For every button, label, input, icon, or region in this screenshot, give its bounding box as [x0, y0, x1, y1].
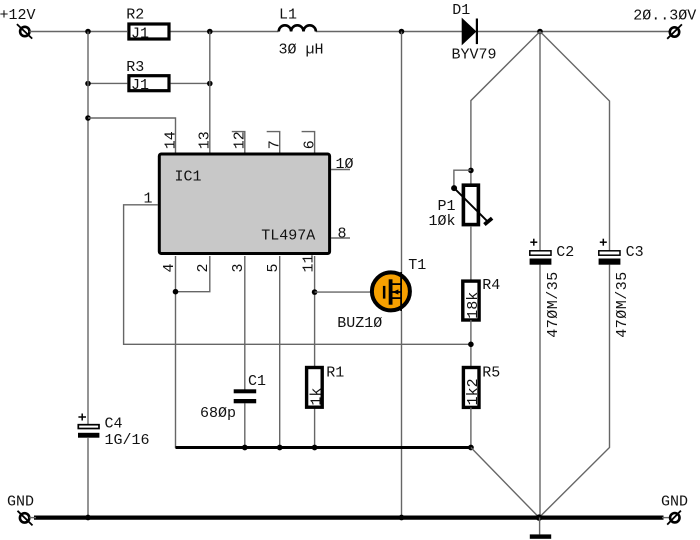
- svg-text:47ØM/35: 47ØM/35: [614, 271, 631, 338]
- svg-text:14: 14: [162, 131, 179, 149]
- svg-text:8: 8: [338, 226, 347, 243]
- node junction bus C1: [242, 445, 248, 451]
- svg-text:C2: C2: [556, 244, 574, 261]
- svg-text:6: 6: [301, 140, 318, 149]
- wire bottom bus: [176, 446, 471, 449]
- svg-text:R2: R2: [126, 6, 144, 23]
- wire y118 to pin14: [88, 118, 176, 153]
- node junction gnd x539: [536, 514, 542, 520]
- svg-text:R3: R3: [126, 59, 144, 76]
- wire P1 to R4: [470, 226, 472, 281]
- mosfet drain lead: [393, 283, 402, 285]
- ground symbol: [530, 518, 551, 539]
- svg-text:12: 12: [232, 131, 249, 149]
- svg-text:1Øk: 1Øk: [429, 213, 456, 230]
- terminal +12V: [17, 24, 32, 38]
- node junction gnd x401: [399, 515, 405, 521]
- wire gate: [315, 291, 384, 293]
- node junction pins 2-4: [173, 289, 179, 295]
- wire source to gnd: [401, 311, 403, 518]
- resistor R5: [463, 365, 500, 408]
- node junction x88 y118: [85, 115, 91, 121]
- node junction x88 R3: [85, 81, 91, 87]
- wire top junction to P1 diagonal: [471, 32, 540, 185]
- svg-text:2Ø..3ØV: 2Ø..3ØV: [633, 7, 696, 24]
- capacitor C4: [78, 414, 150, 450]
- wire pin 3 to C1: [244, 256, 246, 390]
- wire gnd bus: [34, 515, 664, 519]
- svg-text:7: 7: [267, 140, 284, 149]
- svg-text:C4: C4: [105, 416, 123, 433]
- capacitor C2: [530, 32, 575, 518]
- wire C2 bottom: [539, 265, 541, 518]
- svg-text:R1: R1: [326, 365, 344, 382]
- node junction top x401 (T1 drain): [399, 29, 405, 35]
- wire R3 left: [88, 82, 128, 84]
- wire pin13 vertical x210: [209, 32, 211, 154]
- node junction gnd x88: [85, 515, 91, 521]
- mosfet gate bar: [383, 286, 386, 299]
- mosfet source lead: [393, 297, 402, 299]
- inductor L1: [279, 7, 324, 59]
- node junction bus R5: [468, 445, 474, 451]
- wire C1 to bus: [244, 403, 246, 447]
- wire P1 wiper link: [454, 170, 471, 188]
- wire D1 to output terminal: [478, 31, 670, 33]
- svg-text:L1: L1: [279, 7, 297, 24]
- svg-text:D1: D1: [452, 2, 470, 19]
- node junction bus R1: [312, 445, 318, 451]
- node junction P1 top: [468, 168, 474, 174]
- svg-text:47ØM/35: 47ØM/35: [545, 271, 562, 338]
- capacitor C3: [539, 32, 644, 518]
- wire pin 2 to pin 4: [176, 256, 210, 292]
- svg-text:IC1: IC1: [175, 169, 202, 186]
- wire drain from top rail: [401, 32, 403, 274]
- terminal GND left: [18, 511, 33, 526]
- svg-text:13: 13: [197, 131, 214, 149]
- wire C3 bottom: [539, 265, 609, 518]
- node junction P1 wiper: [451, 185, 457, 191]
- svg-text:1Ø: 1Ø: [336, 156, 354, 173]
- wire C4 to gnd bus: [87, 438, 89, 518]
- svg-text:J1: J1: [131, 25, 149, 42]
- mosfet internal vertical lead: [400, 272, 402, 311]
- resistor R2: [126, 6, 169, 42]
- wire R3 right: [171, 82, 210, 84]
- diode D1 BYV79: [452, 2, 497, 64]
- svg-text:1k2: 1k2: [465, 378, 482, 405]
- node junction gate: [312, 289, 318, 295]
- wire left rail x88 vertical: [87, 32, 89, 425]
- wire pin 5 to bus: [279, 256, 281, 448]
- svg-text:C1: C1: [248, 373, 266, 390]
- svg-text:GND: GND: [7, 494, 34, 511]
- capacitor C1: [200, 373, 266, 422]
- wire C3 diagonal+top: [540, 32, 610, 251]
- svg-text:J1: J1: [131, 77, 149, 94]
- node junction top x210: [207, 29, 213, 35]
- svg-text:18k: 18k: [465, 292, 482, 319]
- potentiometer P1: [429, 185, 493, 230]
- pin 8 stub: [331, 237, 350, 239]
- mosfet body lead with arrow: [393, 291, 402, 293]
- IC IC1 TL497A: [159, 154, 329, 254]
- resistor R3: [126, 59, 169, 94]
- svg-text:R5: R5: [482, 365, 500, 382]
- resistor R1: [307, 365, 345, 408]
- svg-text:GND: GND: [661, 494, 688, 511]
- pin 7 stub: [267, 132, 280, 153]
- wire pin 11 to R1: [314, 256, 316, 367]
- svg-text:C3: C3: [626, 244, 644, 261]
- svg-text:R4: R4: [482, 277, 500, 294]
- pin 12 stub: [232, 132, 245, 153]
- wire C2 top: [539, 32, 541, 251]
- wire L1 to D1: [316, 31, 463, 33]
- wire top rail left: [30, 31, 128, 33]
- terminal 20..30V: [667, 24, 682, 38]
- svg-text:BUZ1Ø: BUZ1Ø: [337, 315, 382, 332]
- svg-text:TL497A: TL497A: [261, 228, 315, 245]
- node junction x210 R3: [207, 81, 213, 87]
- mosfet channel bar: [389, 279, 393, 304]
- terminal GND right: [667, 511, 681, 525]
- svg-text:+12V: +12V: [0, 7, 36, 24]
- pin 6 stub: [302, 132, 315, 153]
- wire R4 to R5: [470, 320, 472, 368]
- wire R5 to bus: [470, 408, 472, 448]
- node junction top x88: [85, 29, 91, 35]
- svg-text:BYV79: BYV79: [452, 47, 497, 64]
- plus sign: [600, 241, 607, 243]
- wire bus diagonal to gnd: [471, 448, 539, 518]
- svg-text:T1: T1: [408, 257, 426, 274]
- node junction bus pin5: [277, 445, 283, 451]
- node junction feedback divider: [468, 342, 474, 348]
- wire pin 1 feedback route: [124, 205, 471, 344]
- node junction top x540: [537, 29, 543, 35]
- transistor T1 BUZ10: [337, 32, 426, 519]
- resistor R4: [463, 277, 501, 320]
- pin 4 wire: [175, 256, 177, 448]
- plus sign: [78, 416, 86, 418]
- wire R1 to bus: [314, 408, 316, 448]
- svg-text:1k: 1k: [309, 388, 326, 406]
- plus sign: [530, 241, 537, 243]
- svg-text:1G/16: 1G/16: [105, 432, 150, 449]
- svg-text:3Ø µH: 3Ø µH: [279, 41, 324, 58]
- wiper arrow: [454, 188, 488, 222]
- pin 10 stub: [331, 169, 350, 171]
- wire R2 to L1: [171, 31, 279, 33]
- svg-text:68Øp: 68Øp: [200, 405, 236, 422]
